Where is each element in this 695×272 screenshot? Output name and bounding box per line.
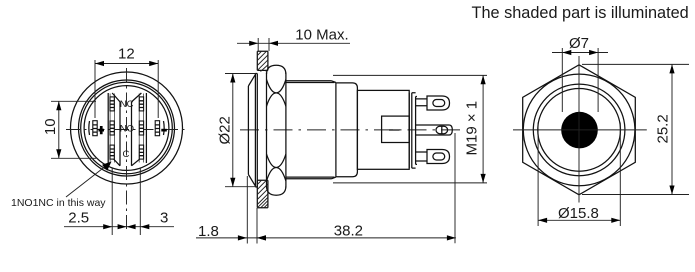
arrow at right ext pointing left [140,224,149,229]
dimension 25.2 line [671,64,673,194]
svg-text:Ø22: Ø22 [217,116,234,144]
svg-text:Ø7: Ø7 [569,35,589,52]
mounting nut upper waist arcs [267,80,286,107]
dimension O22 line [232,74,234,187]
blade channel verticals [110,94,143,163]
pin C right blade [139,145,143,159]
front ring outer [533,84,625,176]
leader 1NO1NC [66,164,109,198]
svg-text:3: 3 [160,209,168,226]
svg-text:NC: NC [120,99,134,110]
top funnel [112,93,141,102]
svg-text:25.2: 25.2 [655,114,672,143]
panel hatch top [257,51,268,71]
svg-text:C: C [123,149,130,160]
pin NC right blade [139,97,143,111]
dimension O7 line [552,52,608,54]
keyway arc right [163,121,166,135]
mounting nut top cap [267,65,286,74]
panel hatch bottom [257,180,268,208]
rear cap [409,93,417,168]
pin C left blade [110,145,114,159]
thread end step [332,81,336,179]
plus symbol [99,126,105,134]
dimension 12 line with arrows [95,63,158,65]
latch centerline tick [389,129,400,131]
panel (hatched) [257,51,268,208]
left view circle 2 [79,80,175,176]
dimension O7 extension lines [562,48,598,112]
front bezel circle [523,74,635,186]
svg-text:M19 × 1: M19 × 1 [464,101,481,156]
pin NC left blade [110,97,114,111]
left view horizontal centerline [66,129,187,131]
svg-text:1NO1NC in this way: 1NO1NC in this way [11,197,106,209]
left view outer circle [71,72,183,184]
illuminated dot [561,112,598,149]
terminal blade bottom [427,150,450,164]
left view inner circle [84,86,169,171]
left view circle 3 [81,82,173,174]
front ring inner (O15.8) [538,89,621,172]
LED cathode blade [155,121,159,136]
hex nut front [523,65,636,195]
dimension O22 extension lines [225,74,257,187]
mounting nut lower waist arcs [267,154,286,181]
housing [357,90,409,169]
arrow at left ext pointing right [103,224,112,229]
dimension 10 extension lines [51,101,96,158]
thread lines [286,83,335,178]
dimension O15.8 line [538,219,620,221]
dimension 10max line [237,42,350,44]
minus symbol [161,129,167,132]
terminal blade middle (edge-on) [415,125,452,135]
front view horizontal centerline [513,129,647,131]
dimension 1.8 extension lines [247,176,257,244]
svg-text:The shaded part is illuminated: The shaded part is illuminated [472,4,689,22]
housing latch square [382,116,410,142]
mounting nut side edges [267,73,286,188]
dimension 12 extension lines [95,60,158,118]
keyway arc left [88,121,91,135]
svg-text:38.2: 38.2 [334,223,363,240]
front view vertical centerline [578,56,580,203]
LED anode blade [93,121,97,136]
terminal blade top [427,96,450,110]
mounting nut bottom cap [267,187,286,196]
svg-text:10 Max.: 10 Max. [295,27,348,44]
terminal stub bottom [415,152,427,161]
dimension 38.2 line [257,237,456,239]
svg-text:1.8: 1.8 [198,223,219,240]
svg-text:10: 10 [42,118,59,135]
dimension 25.2 extension lines [582,64,689,194]
middle centerline [240,129,466,131]
pin NO right blade [139,121,143,135]
arrows at centerline [118,224,127,229]
slot inner verticals [120,102,132,166]
dimension 10max extension lines [258,38,269,51]
collar [336,83,358,177]
svg-text:Ø15.8: Ø15.8 [558,205,599,222]
svg-text:2.5: 2.5 [68,209,89,226]
dimension 1.8 line [196,237,257,239]
flange profile [248,74,257,188]
terminal stub top [415,99,427,106]
left view vertical centerline [126,68,128,233]
dimension M19 extension lines [333,75,487,182]
terminal bottom hole [433,153,445,160]
pin NO left blade [110,121,114,135]
bottom funnel [113,158,141,166]
dimension 2.5/3 extension lines [112,168,140,235]
terminal middle hole [436,126,448,133]
barrel outer lines [286,81,332,179]
dimension 38.2 extension line right [454,133,456,243]
dimension 10 line with arrows [58,101,60,158]
slot outer verticals [108,93,146,163]
dimension 2.5/3 line [64,226,174,228]
terminal top hole [433,100,445,107]
dimension O15.8 extension lines [538,123,620,227]
svg-text:NO: NO [120,124,134,135]
svg-text:12: 12 [118,46,135,63]
dimension M19 line [482,75,484,183]
